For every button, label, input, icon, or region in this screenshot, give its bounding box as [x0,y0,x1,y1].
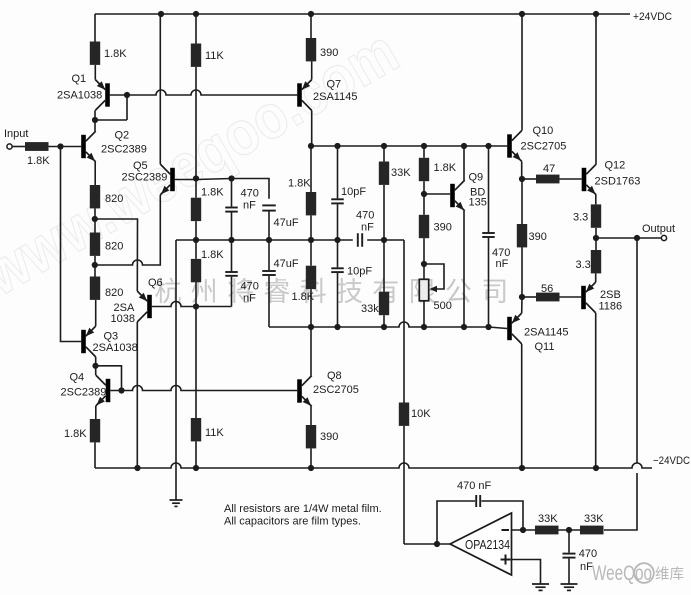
svg-text:nF: nF [243,293,256,305]
svg-text:nF: nF [361,222,374,234]
svg-text:Q5: Q5 [133,160,148,172]
svg-text:Q11: Q11 [535,341,555,353]
svg-text:470: 470 [356,210,374,222]
svg-text:470: 470 [241,281,259,293]
svg-text:1.8K: 1.8K [64,428,87,440]
svg-text:nF: nF [580,561,593,573]
svg-text:3.3: 3.3 [573,212,588,224]
svg-text:Q6: Q6 [148,277,163,289]
svg-text:2SA1038: 2SA1038 [93,342,138,354]
svg-text:Q2: Q2 [115,130,130,142]
svg-text:Q3: Q3 [104,331,119,343]
svg-text:nF: nF [243,200,256,212]
svg-text:Q10: Q10 [533,125,554,137]
svg-text:820: 820 [105,287,123,299]
svg-text:820: 820 [105,193,123,205]
svg-text:维库: 维库 [655,566,684,583]
svg-text:470 nF: 470 nF [457,480,492,492]
svg-text:33K: 33K [391,167,411,179]
svg-text:1.8K: 1.8K [27,155,50,167]
svg-text:47uF: 47uF [274,217,299,229]
svg-text:All capacitors are film types.: All capacitors are film types. [224,516,361,528]
svg-text:11K: 11K [205,427,224,439]
svg-text:Q7: Q7 [327,79,342,91]
svg-text:司: 司 [481,277,508,307]
svg-text:390: 390 [529,231,547,243]
svg-text:Q4: Q4 [70,372,85,384]
svg-text:WeeQoo: WeeQoo [592,562,652,585]
svg-text:睿: 睿 [263,277,290,307]
svg-text:1.8K: 1.8K [104,48,127,60]
svg-text:10pF: 10pF [341,186,366,198]
svg-text:10pF: 10pF [347,266,372,278]
svg-text:33K: 33K [584,513,604,525]
svg-text:nF: nF [496,258,509,270]
svg-text:47uF: 47uF [274,258,299,270]
svg-text:390: 390 [434,222,452,234]
svg-text:Q8: Q8 [327,370,342,382]
svg-text:33K: 33K [538,513,558,525]
svg-text:Input: Input [4,128,28,140]
svg-text:2SC2705: 2SC2705 [313,384,359,396]
svg-text:1.8K: 1.8K [292,291,315,303]
svg-text:2SC2705: 2SC2705 [521,141,567,153]
svg-text:1.8K: 1.8K [201,187,224,199]
svg-text:390: 390 [320,47,338,59]
svg-text:2SA1038: 2SA1038 [57,90,102,102]
svg-text:1.8K: 1.8K [288,178,311,190]
svg-text:OPA2134: OPA2134 [465,538,510,552]
svg-text:+24VDC: +24VDC [633,11,672,23]
svg-text:10K: 10K [411,408,431,420]
svg-text:2SA1145: 2SA1145 [313,91,357,103]
svg-text:2SC2389: 2SC2389 [122,172,168,184]
svg-text:Output: Output [642,223,675,235]
svg-text:470: 470 [579,548,597,560]
svg-text:Q9: Q9 [469,172,484,184]
svg-text:2SC2389: 2SC2389 [101,144,147,156]
svg-text:390: 390 [320,431,338,443]
svg-text:1038: 1038 [111,313,135,325]
svg-text:1.8K: 1.8K [434,162,457,174]
svg-text:135: 135 [469,197,487,209]
svg-text:470: 470 [241,188,259,200]
svg-text:Q12: Q12 [605,160,626,172]
svg-text:3.3: 3.3 [576,259,591,271]
svg-text:2SD1763: 2SD1763 [595,176,641,188]
svg-text:11K: 11K [205,50,224,62]
svg-text:33k: 33k [361,303,379,315]
svg-text:2SA1145: 2SA1145 [524,327,568,339]
svg-text:820: 820 [105,241,123,253]
svg-text:47: 47 [543,163,555,175]
svg-text:1186: 1186 [599,301,623,313]
svg-text:2SC2389: 2SC2389 [61,387,107,399]
svg-text:All resistors are 1/4W metal f: All resistors are 1/4W metal film. [224,503,382,515]
svg-text:1.8K: 1.8K [201,249,224,261]
svg-text:56: 56 [541,283,553,295]
svg-text:Q1: Q1 [72,73,87,85]
svg-text:2SB: 2SB [600,289,621,301]
svg-text:500: 500 [434,300,452,312]
svg-text:−24VDC: −24VDC [653,455,690,467]
svg-text:技: 技 [336,277,363,307]
